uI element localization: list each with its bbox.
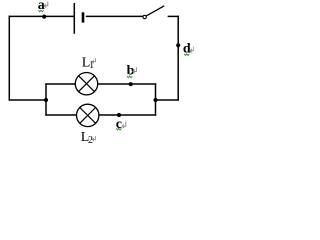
battery short thick plate (negative) <box>82 12 85 22</box>
wire: left vertical <box>8 16 10 101</box>
wire: battery to switch <box>86 15 143 17</box>
wire: left branch vertical <box>45 83 47 115</box>
wire: right branch vertical <box>155 83 157 115</box>
lamp L1 cross <box>79 76 95 92</box>
node a (junction dot on top wire) <box>42 15 46 19</box>
wire: right branch point to right vertical <box>156 99 179 101</box>
wire: right vertical <box>177 16 179 101</box>
lamp L1 circle <box>75 73 97 95</box>
lamp L2 circle <box>77 104 99 126</box>
wire: bottom branch left segment to lamp L2 <box>45 114 76 116</box>
paragraph return mark after d <box>190 46 194 52</box>
paragraph return mark after b <box>133 67 137 73</box>
node d (junction dot on right wire) <box>176 43 180 47</box>
wire: left feed to branch point <box>9 99 46 101</box>
svg-text:2: 2 <box>88 135 93 146</box>
green squiggle under d <box>184 54 189 56</box>
lamp L2 cross <box>80 108 96 124</box>
junction dot left branch point <box>44 98 48 102</box>
wire: top-left horizontal from corner to battery <box>9 15 74 17</box>
node b (junction dot on top branch) <box>129 82 133 86</box>
battery long plate (positive) <box>73 3 75 34</box>
switch pivot circle <box>143 15 146 18</box>
paragraph return mark after c <box>122 122 126 128</box>
svg-text:c: c <box>116 117 122 132</box>
junction dot right branch point <box>153 98 157 102</box>
wire: top branch right segment from lamp L1 to right branch point <box>98 83 157 85</box>
green squiggle under c <box>116 128 121 130</box>
green squiggle under a <box>38 10 43 12</box>
wire: bottom branch right segment from lamp L2 to right branch point <box>99 114 156 116</box>
paragraph return mark after L1 <box>92 58 95 63</box>
switch blade (open) <box>146 6 164 16</box>
paragraph return mark after a <box>44 2 48 8</box>
paragraph return mark after L2 <box>92 136 95 141</box>
node c (junction dot on bottom branch) <box>117 113 121 117</box>
wire: switch right contact to top-right corner <box>168 15 179 17</box>
wire: top branch left segment to lamp L1 <box>45 83 75 85</box>
green squiggle under b <box>127 76 132 78</box>
